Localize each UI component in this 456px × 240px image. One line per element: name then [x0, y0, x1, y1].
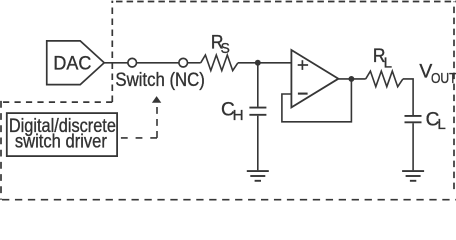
switch driver box — [7, 113, 117, 156]
dashed boundary outline: bottom edge — [1, 199, 456, 201]
dashed boundary corner nub top-left — [111, 1, 113, 3]
feedback wire — [282, 79, 352, 122]
wire RL to CL — [403, 79, 413, 115]
wire node to CH — [257, 63, 259, 107]
output node dot — [348, 76, 354, 82]
dashed control line horizontal — [118, 137, 158, 139]
svg-text:L: L — [437, 116, 445, 133]
resistor RS — [201, 55, 238, 71]
wire DAC to switch — [104, 62, 127, 64]
switch terminal circle 2 — [179, 58, 188, 67]
wire CH to ground — [257, 116, 259, 171]
wire RS to op-amp — [238, 62, 292, 64]
output wire — [338, 78, 365, 80]
capacitor CL — [405, 115, 422, 117]
op-amp A1 — [291, 50, 338, 107]
switch terminal circle 1 — [128, 58, 137, 67]
arrowhead — [152, 96, 161, 103]
wire CL to ground — [412, 123, 414, 170]
plus sign — [298, 64, 308, 66]
minus sign — [298, 93, 308, 95]
svg-text:switch driver: switch driver — [15, 132, 108, 153]
capacitor CH — [249, 107, 266, 109]
wire switch to RS — [188, 62, 201, 64]
dashed boundary outline: notch horizontal edge — [1, 101, 112, 103]
dashed control line vertical — [156, 102, 158, 137]
DAC U1 — [47, 41, 104, 85]
ground (CH) — [247, 170, 269, 172]
svg-text:Switch (NC): Switch (NC) — [115, 70, 204, 91]
dashed boundary outline: top edge — [112, 1, 456, 3]
svg-text:DAC: DAC — [53, 54, 91, 75]
svg-text:H: H — [233, 107, 244, 124]
svg-text:OUT: OUT — [431, 70, 456, 87]
dashed boundary outline: notch vertical edge — [111, 2, 113, 103]
resistor RL — [366, 71, 403, 87]
dashed boundary outline: right edge — [453, 2, 455, 194]
ground (CL) — [402, 170, 424, 172]
switch closed contact wire — [137, 62, 179, 64]
svg-text:S: S — [221, 40, 230, 57]
svg-text:L: L — [384, 55, 392, 72]
node junction dot — [255, 60, 261, 66]
dashed boundary outline: left edge — [0, 101, 2, 200]
